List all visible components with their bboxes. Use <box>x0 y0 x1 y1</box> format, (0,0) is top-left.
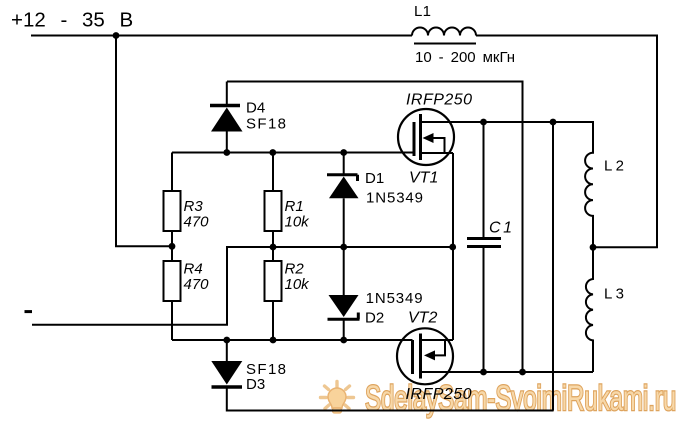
svg-text:+12 - 35 В: +12 - 35 В <box>11 8 133 31</box>
svg-text:VT2: VT2 <box>408 310 437 327</box>
svg-text:IRFP250: IRFP250 <box>406 92 472 109</box>
svg-text:1N5349: 1N5349 <box>366 190 423 207</box>
svg-text:R1: R1 <box>285 198 304 215</box>
svg-text:470: 470 <box>184 276 210 293</box>
svg-text:D4: D4 <box>246 100 265 117</box>
svg-text:D2: D2 <box>365 310 384 327</box>
svg-text:R3: R3 <box>184 198 204 215</box>
svg-text:470: 470 <box>184 214 210 231</box>
svg-text:1N5349: 1N5349 <box>366 290 423 307</box>
svg-text:R4: R4 <box>184 261 203 278</box>
svg-text:10k: 10k <box>285 276 311 293</box>
svg-text:SF18: SF18 <box>246 115 286 132</box>
svg-text:C1: C1 <box>489 220 512 237</box>
svg-text:R2: R2 <box>285 261 305 278</box>
svg-text:D3: D3 <box>246 376 265 393</box>
svg-text:10 - 200 мкГн: 10 - 200 мкГн <box>415 49 515 66</box>
svg-text:D1: D1 <box>365 170 384 187</box>
svg-text:10k: 10k <box>285 214 311 231</box>
svg-text:L1: L1 <box>414 3 431 20</box>
svg-text:SdelaySam-SvoimiRukami.ru: SdelaySam-SvoimiRukami.ru <box>365 380 676 419</box>
svg-text:VT1: VT1 <box>409 170 438 187</box>
